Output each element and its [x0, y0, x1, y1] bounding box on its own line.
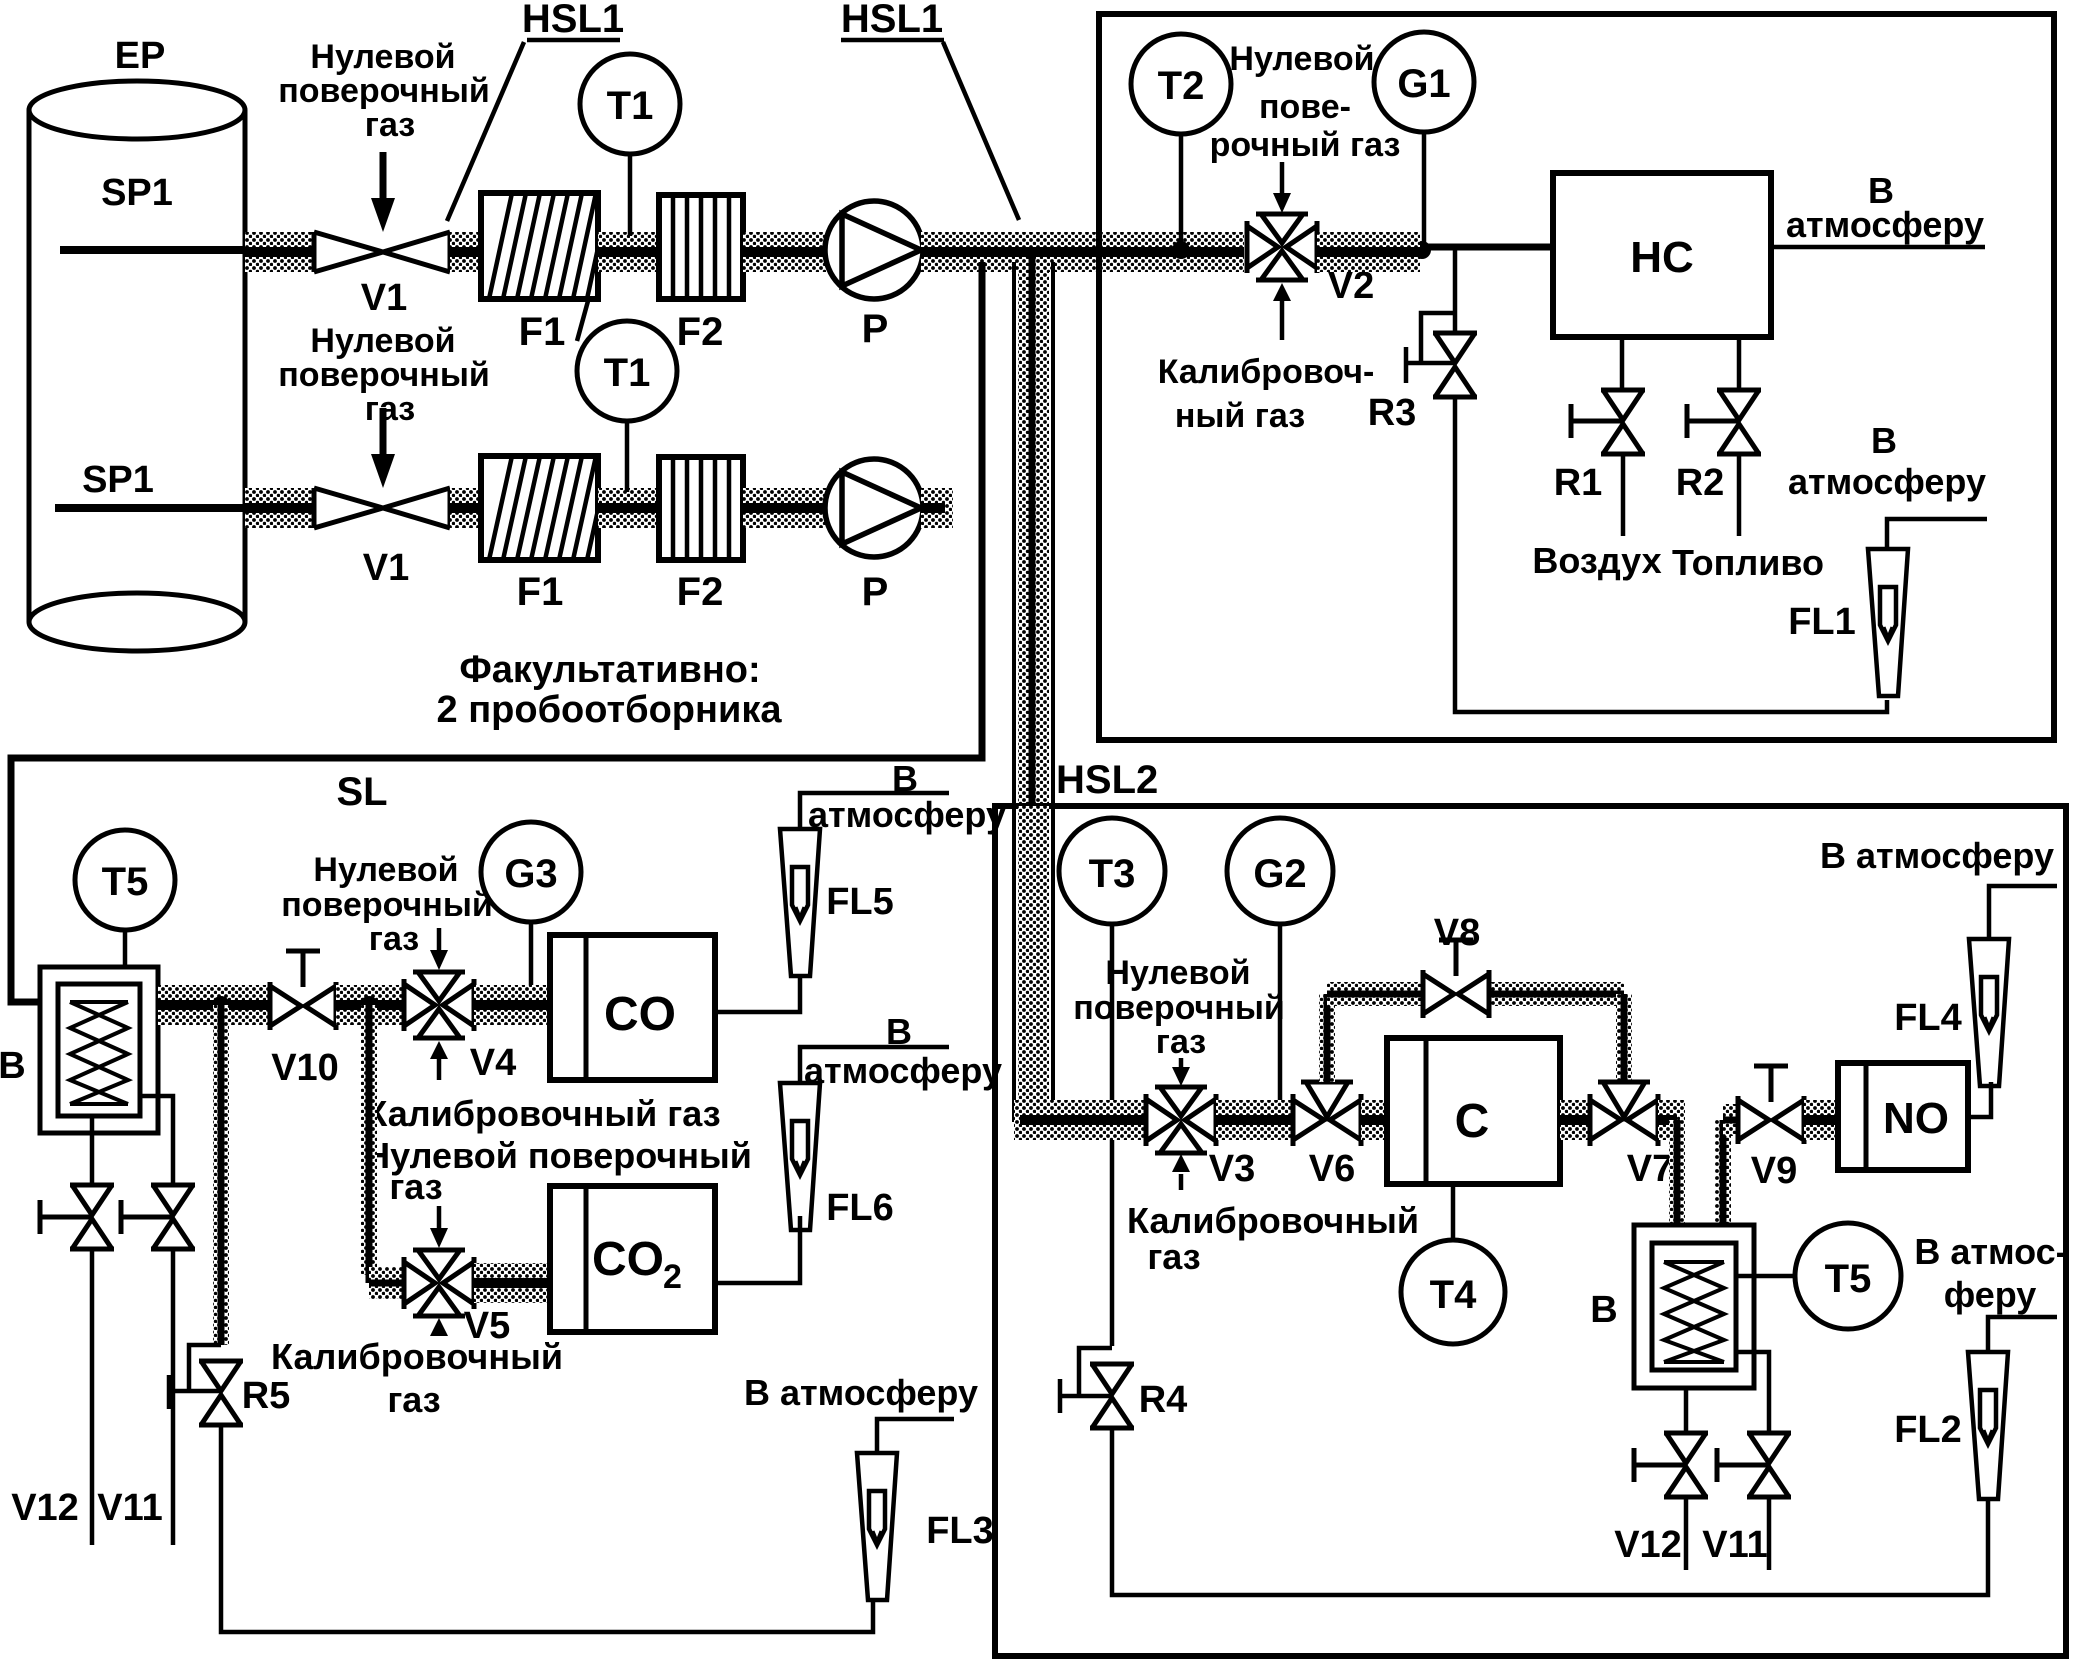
wire G1 node to HC	[1420, 244, 1553, 251]
sensor G2	[1227, 818, 1333, 924]
regulator R3 bypass loop	[1406, 313, 1455, 383]
wire B bottom to V12	[90, 1116, 95, 1183]
valve V11 (right pair)	[1717, 1433, 1791, 1497]
flowmeter FL3	[857, 1453, 897, 1600]
svg-text:V6: V6	[1309, 1148, 1355, 1190]
svg-text:В атмосферу: В атмосферу	[1820, 835, 2054, 876]
svg-text:V11: V11	[1702, 1524, 1768, 1566]
wire G1 to line	[1422, 132, 1427, 247]
svg-text:V9: V9	[1751, 1150, 1797, 1192]
wire heated B to V10	[158, 985, 270, 1025]
wire T1 lower to row2 line	[625, 421, 630, 492]
probe SP1 upper (wire)	[60, 246, 245, 254]
valve V6 (3-way)	[1293, 1082, 1361, 1146]
wire cooler B to V12 right	[1684, 1388, 1689, 1431]
svg-text:газ: газ	[1156, 1023, 1206, 1061]
svg-text:В: В	[1590, 1289, 1617, 1331]
calibration gas arrow into V4 bottom	[430, 1041, 448, 1080]
wire heated V1 to F1 row1	[450, 232, 481, 272]
label HSL1 (right) with callout	[841, 0, 1019, 220]
wire B bottom to V11	[140, 1096, 173, 1183]
wire heated main run to V3	[1014, 1100, 1146, 1140]
wire T5 to cooler B	[1736, 1274, 1795, 1279]
analyser box NO	[1838, 1063, 1968, 1170]
valve R2	[1687, 390, 1761, 454]
svg-text:V7: V7	[1627, 1148, 1673, 1190]
svg-text:атмосферу: атмосферу	[1788, 461, 1986, 502]
wire T1 upper to line	[628, 154, 633, 236]
svg-text:поверочный: поверочный	[278, 72, 490, 110]
svg-text:G2: G2	[1253, 852, 1306, 896]
svg-text:T1: T1	[604, 351, 651, 395]
wire HC to R2	[1737, 337, 1742, 389]
wire CO2 outlet to FL6	[715, 1216, 800, 1283]
svg-text:F1: F1	[517, 570, 564, 614]
svg-text:V10: V10	[271, 1047, 339, 1089]
analyser box CO	[550, 935, 715, 1080]
callout T1 lower to F1 corner	[577, 301, 588, 341]
probe SP1 lower (wire)	[55, 504, 245, 512]
valve V9	[1738, 1066, 1804, 1144]
valve V10	[270, 951, 336, 1030]
wire heated V7 down into cooler B	[1658, 1100, 1685, 1245]
sensor T3	[1059, 818, 1165, 924]
cooler B (left) with coil	[40, 967, 158, 1133]
svg-text:2 пробоотборника: 2 пробоотборника	[437, 689, 783, 731]
svg-text:NO: NO	[1883, 1094, 1949, 1143]
wire heated V9 to NO	[1804, 1100, 1838, 1140]
svg-text:Калибровоч-: Калибровоч-	[1158, 353, 1375, 391]
svg-text:FL6: FL6	[826, 1187, 894, 1229]
svg-text:G3: G3	[504, 852, 557, 896]
svg-text:поверочный: поверочный	[278, 356, 490, 394]
wire heated C to V7	[1560, 1100, 1590, 1140]
svg-text:В атмосферу: В атмосферу	[744, 1372, 978, 1413]
cooler B (right) with coil	[1634, 1225, 1754, 1388]
svg-text:газ: газ	[389, 1166, 442, 1207]
svg-text:CO: CO	[604, 988, 676, 1041]
node V5 branch junction	[360, 996, 378, 1014]
analyser box C	[1387, 1038, 1560, 1184]
svg-text:V4: V4	[470, 1042, 516, 1084]
wire CO outlet to FL5	[715, 977, 800, 1012]
valve V12 (right pair)	[1634, 1433, 1708, 1497]
valve V2 (4-way)	[1247, 214, 1317, 280]
valve V1 (upper)	[314, 232, 450, 272]
svg-text:FL4: FL4	[1894, 997, 1962, 1039]
wire HC to R1	[1620, 337, 1625, 389]
wire fuel inlet below R2	[1737, 454, 1742, 536]
wire G2 to line	[1278, 924, 1283, 1102]
label HSL1 (left) with callout	[447, 0, 624, 221]
svg-text:T4: T4	[1430, 1273, 1477, 1317]
svg-text:Калибровочный газ: Калибровочный газ	[365, 1093, 720, 1134]
regulator R4 bypass loop	[1060, 1348, 1112, 1413]
svg-text:рочный газ: рочный газ	[1210, 126, 1401, 164]
svg-text:V8: V8	[1434, 912, 1480, 954]
svg-text:Нулевой: Нулевой	[1105, 954, 1250, 992]
flowmeter FL5	[780, 829, 820, 976]
svg-text:G1: G1	[1397, 62, 1450, 106]
wire heated V4 to CO	[474, 985, 550, 1025]
svg-text:V3: V3	[1209, 1148, 1255, 1190]
svg-text:FL5: FL5	[826, 881, 894, 923]
svg-text:В атмос-: В атмос-	[1914, 1231, 2067, 1272]
zero gas arrow into V3 top	[1172, 1058, 1190, 1086]
wire V12 right drain	[1684, 1497, 1689, 1570]
pump P (upper)	[825, 201, 923, 299]
svg-text:Воздух: Воздух	[1532, 540, 1661, 581]
calibration gas arrow into V2 bottom	[1273, 283, 1291, 340]
svg-text:P: P	[862, 570, 889, 614]
wire heated branch to R5	[213, 1005, 229, 1345]
wire FL6 vent	[800, 1047, 949, 1083]
svg-text:Нулевой: Нулевой	[313, 851, 458, 889]
flowmeter FL1	[1868, 549, 1908, 696]
svg-text:газ: газ	[365, 106, 415, 144]
wire heated V1-F1 row2	[450, 488, 481, 528]
svg-text:V12: V12	[1614, 1524, 1682, 1566]
svg-text:F2: F2	[677, 310, 724, 354]
enclosure box top-right	[1099, 14, 2054, 740]
regulator R3 valve	[1433, 333, 1477, 397]
wire T3 down through line to R4	[1110, 924, 1115, 1346]
svg-text:газ: газ	[387, 1379, 440, 1420]
analyser box CO2	[550, 1186, 715, 1332]
wire heated stub after pump row2	[921, 488, 953, 528]
svg-text:ный газ: ный газ	[1175, 397, 1305, 435]
wire heated V3 to V6	[1216, 1100, 1293, 1140]
wire heated V6 to C	[1361, 1100, 1387, 1140]
svg-text:пове-: пове-	[1259, 88, 1351, 126]
svg-text:В: В	[0, 1045, 26, 1087]
svg-text:поверочный: поверочный	[1073, 989, 1285, 1027]
heated line HSL1 row1 : duct to valve V1	[245, 232, 314, 272]
svg-text:Факультативно:: Факультативно:	[459, 649, 760, 691]
wire FL1 vent	[1887, 519, 1987, 547]
wire heated V2 to G1 node	[1317, 232, 1420, 272]
node T2 junction	[1172, 241, 1190, 259]
duct EP cylinder	[29, 81, 245, 651]
svg-text:F1: F1	[519, 310, 566, 354]
flowmeter FL6	[780, 1083, 820, 1230]
sensor T1 (lower)	[577, 321, 677, 421]
filter F2 (upper)	[659, 195, 743, 299]
wire HC outlet to atmosphere	[1771, 245, 1985, 250]
wire V11 drain	[171, 1249, 176, 1545]
valve V8	[1423, 940, 1489, 1018]
svg-text:НС: НС	[1630, 233, 1694, 282]
svg-text:феру: феру	[1944, 1274, 2037, 1315]
svg-text:В: В	[1871, 420, 1897, 461]
svg-text:Калибровочный: Калибровочный	[1127, 1200, 1419, 1241]
zero gas arrow into V4 top	[430, 928, 448, 970]
svg-text:R2: R2	[1676, 462, 1725, 504]
svg-text:атмосферу: атмосферу	[808, 794, 1006, 835]
wire V12 drain	[90, 1249, 95, 1545]
wire R4 drain to FL2 bottom	[1112, 1428, 1988, 1595]
svg-text:R4: R4	[1139, 1379, 1188, 1421]
svg-text:HSL2: HSL2	[1056, 758, 1158, 802]
sensor T5 (right)	[1795, 1223, 1901, 1329]
svg-text:CO: CO	[592, 1233, 664, 1286]
svg-text:V11: V11	[97, 1487, 163, 1529]
zero gas arrow into V1 upper	[371, 152, 395, 232]
svg-text:T5: T5	[102, 860, 149, 904]
svg-text:V1: V1	[363, 547, 409, 589]
svg-text:F2: F2	[677, 570, 724, 614]
svg-text:HSL1: HSL1	[522, 0, 624, 41]
svg-text:В: В	[886, 1011, 912, 1052]
node G1 junction	[1413, 241, 1431, 259]
svg-text:P: P	[862, 307, 889, 351]
wire heated F2-P row2	[743, 488, 830, 528]
wire R5 drain to FL3	[221, 1425, 873, 1632]
svg-text:V1: V1	[361, 277, 407, 319]
wire T2 to line	[1179, 134, 1184, 247]
svg-text:поверочный: поверочный	[281, 886, 493, 924]
sensor T4	[1401, 1240, 1505, 1344]
svg-text:Топливо: Топливо	[1672, 542, 1824, 583]
valve V5 (4-way)	[404, 1250, 474, 1316]
heated bypass V6 up over C via V8	[1319, 982, 1632, 1082]
wire V11 right drain	[1767, 1497, 1772, 1570]
wire heated F1-F2 row2	[598, 488, 659, 528]
sensor T5 (left)	[75, 830, 175, 930]
wire heated P to HSL1 junction row1	[921, 232, 1244, 272]
filter F2 (lower)	[659, 457, 743, 560]
svg-text:газ: газ	[369, 920, 419, 958]
wire heated V5 to CO2	[474, 1263, 550, 1303]
wire heated branch to V5	[361, 1005, 404, 1299]
regulator R5 valve	[199, 1361, 243, 1425]
calibration gas arrow into V3 bottom	[1172, 1154, 1190, 1190]
wire G3 to line	[529, 922, 534, 1003]
wire FL2 vent	[1988, 1317, 2057, 1350]
filter F1 (upper)	[481, 193, 598, 299]
svg-text:T2: T2	[1158, 64, 1205, 108]
enclosure box bottom-right	[995, 806, 2066, 1656]
svg-text:R3: R3	[1368, 392, 1417, 434]
wire heated cooler B up to V9	[1715, 1104, 1738, 1245]
svg-text:Нулевой: Нулевой	[310, 38, 455, 76]
flowmeter FL2	[1968, 1352, 2008, 1499]
heated HSL2 inside box down to main run	[1018, 806, 1049, 1106]
calibration gas arrow into V5 bottom	[430, 1318, 448, 1336]
svg-text:T3: T3	[1089, 852, 1136, 896]
wire SL from main line down-left to cooler B	[11, 262, 982, 1002]
wire R3 drain to FL1 bottom	[1455, 397, 1887, 712]
wire heated F1-F2 row1	[598, 232, 659, 272]
zero gas arrow into V2 top	[1273, 162, 1291, 213]
svg-text:Калибровочный: Калибровочный	[271, 1336, 563, 1377]
heated line HSL2 vertical	[1014, 256, 1053, 1122]
svg-text:Нулевой: Нулевой	[1229, 40, 1374, 78]
svg-text:EP: EP	[115, 35, 166, 77]
wire NO outlet to FL4	[1968, 1082, 1991, 1117]
wire FL5 vent	[800, 793, 949, 829]
svg-text:T1: T1	[607, 84, 654, 128]
wire cooler B to V11 right	[1736, 1352, 1769, 1431]
wire T5 to cooler B	[123, 930, 128, 1000]
flowmeter FL4	[1969, 939, 2009, 1086]
regulator R4 valve	[1090, 1364, 1134, 1428]
sensor T1 (upper)	[580, 54, 680, 154]
svg-text:R5: R5	[242, 1375, 291, 1417]
regulator R5 bypass loop	[169, 1345, 221, 1409]
node R5 branch junction	[212, 996, 230, 1014]
svg-text:FL2: FL2	[1894, 1409, 1962, 1451]
svg-text:FL1: FL1	[1788, 601, 1856, 643]
svg-text:SP1: SP1	[82, 459, 154, 501]
svg-text:T5: T5	[1825, 1257, 1872, 1301]
zero gas arrow into V5 top	[430, 1206, 448, 1248]
valve V3 (4-way)	[1146, 1087, 1216, 1153]
valve V4 (4-way)	[404, 972, 474, 1038]
svg-text:2: 2	[663, 1258, 682, 1296]
zero gas arrow into V1 lower	[371, 408, 395, 488]
sensor G3	[481, 822, 581, 922]
svg-text:Нулевой: Нулевой	[310, 322, 455, 360]
svg-text:SL: SL	[336, 770, 387, 814]
svg-text:газ: газ	[365, 390, 415, 428]
valve R1	[1571, 390, 1645, 454]
pump P (lower)	[825, 459, 923, 557]
svg-text:В: В	[892, 758, 918, 799]
wire branch to regulator R3	[1453, 250, 1458, 334]
valve V12 (left pair)	[40, 1185, 114, 1249]
sensor T2	[1131, 34, 1231, 134]
wire FL3 vent	[877, 1419, 954, 1453]
wire C bottom to T4	[1451, 1184, 1456, 1240]
wire air inlet below R1	[1621, 454, 1626, 536]
valve V11 (left pair)	[121, 1185, 195, 1249]
svg-text:V12: V12	[11, 1487, 79, 1529]
wire FL4 vent	[1989, 886, 2057, 939]
valve V7 (3-way)	[1590, 1082, 1658, 1146]
wire heated F2-P row1	[743, 232, 830, 272]
svg-text:FL3: FL3	[926, 1510, 994, 1552]
svg-text:R1: R1	[1554, 462, 1603, 504]
svg-text:атмосферу: атмосферу	[1786, 204, 1984, 245]
sensor G1	[1374, 32, 1474, 132]
svg-text:HSL1: HSL1	[841, 0, 943, 41]
wire heated V10 to V4	[336, 985, 404, 1025]
svg-text:атмосферу: атмосферу	[804, 1050, 1002, 1091]
valve V1 (lower)	[314, 488, 450, 528]
filter F1 (lower)	[481, 456, 598, 560]
svg-text:С: С	[1455, 1095, 1490, 1148]
svg-text:газ: газ	[1147, 1236, 1200, 1277]
analyser box HC	[1553, 173, 1771, 337]
svg-text:SP1: SP1	[101, 172, 173, 214]
heated line row2 : duct to valve V1	[245, 488, 314, 528]
